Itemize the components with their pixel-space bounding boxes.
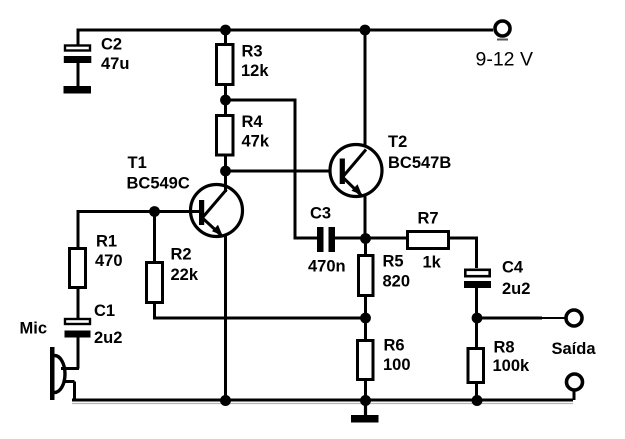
svg-text:100: 100 [383, 356, 411, 374]
label C3 [310, 205, 331, 223]
svg-text:BC549C: BC549C [127, 175, 190, 193]
svg-text:R4: R4 [242, 113, 264, 131]
wire R2 bottom to R5/R6 junction [155, 302, 366, 318]
label T2 [388, 133, 407, 151]
label R5 value 820 [383, 253, 411, 291]
label BC549C [127, 175, 190, 193]
wire R8 bottom lead [475, 383, 478, 401]
label R1 value 470 [95, 233, 123, 271]
wire R7 right to C4 top [449, 238, 477, 268]
wire lower output terminal stub [573, 390, 576, 400]
svg-text:R7: R7 [418, 210, 439, 228]
transistor T1 BC549C [191, 171, 243, 237]
wire output node to upper terminal [477, 317, 565, 320]
wire mic bottom terminal to ground rail [75, 382, 79, 401]
capacitor C3 [317, 227, 335, 252]
wire R5 bottom lead [364, 295, 367, 318]
svg-text:R1: R1 [96, 233, 117, 251]
wire C2 top lead [77, 30, 80, 45]
resistor R3 [217, 45, 234, 85]
svg-text:R3: R3 [242, 43, 263, 61]
label T1 [128, 154, 147, 172]
node junction C3 / T2 emitter / R5 / R7 [360, 233, 371, 244]
node junction C4 / R8 / output [472, 313, 483, 324]
label R4 value 47k [242, 113, 270, 151]
node junction on rail at T2 collector column [360, 25, 371, 36]
label C3 value 470n [308, 258, 346, 276]
terminal 9-12 V supply [495, 21, 510, 40]
wire R1 bottom to C1 [77, 287, 80, 318]
label 9-12 V [476, 49, 533, 71]
svg-text:Saída: Saída [552, 340, 597, 358]
wire feedback from R3/R4 junction to C3 [226, 100, 318, 238]
capacitor C2 [64, 46, 92, 94]
svg-text:R6: R6 [384, 337, 405, 355]
wire C4 bottom to output node [475, 288, 478, 319]
resistor R5 [359, 256, 374, 296]
wire T1 collector to T2 base [226, 170, 341, 173]
resistor R4 [217, 116, 234, 156]
wire junction to R7 [366, 237, 408, 240]
svg-text:47u: 47u [101, 55, 129, 73]
label Mic [20, 320, 48, 338]
node junction R6 / ground rail [360, 395, 371, 406]
resistor R8 [468, 349, 484, 383]
svg-text:C1: C1 [94, 302, 115, 320]
wire T2 emitter down to C3 node [364, 196, 367, 239]
label R6 value 100 [383, 337, 411, 375]
svg-text:C3: C3 [310, 205, 331, 223]
svg-text:470n: 470n [308, 258, 346, 276]
capacitor C1 [65, 319, 91, 338]
node junction on rail at R3 column [220, 25, 231, 36]
node junction R4 / T1 collector [220, 166, 231, 177]
svg-text:T2: T2 [388, 133, 407, 151]
wire T1 emitter down to ground rail [224, 236, 227, 400]
svg-text:22k: 22k [171, 266, 199, 284]
wire T1 base lead [78, 212, 199, 249]
svg-text:2u2: 2u2 [502, 280, 530, 298]
wire R5 top lead [364, 239, 367, 256]
microphone element [50, 347, 79, 400]
svg-text:100k: 100k [493, 357, 531, 375]
node junction R3/R4 [220, 95, 231, 106]
transistor T2 BC547B [330, 145, 382, 197]
ground symbol [351, 400, 379, 423]
svg-text:R2: R2 [171, 246, 192, 264]
label R2 value 22k [171, 246, 199, 285]
wire R3 bottom to R4 top [224, 86, 227, 114]
svg-text:470: 470 [95, 252, 123, 270]
svg-text:9-12 V: 9-12 V [476, 49, 533, 71]
label R7 value 1k [423, 254, 442, 272]
wire R2 top lead [153, 212, 156, 263]
svg-text:820: 820 [383, 273, 411, 291]
label C2 value 47u [101, 36, 129, 74]
svg-text:BC547B: BC547B [388, 154, 451, 172]
svg-text:2u2: 2u2 [94, 329, 122, 347]
svg-text:12k: 12k [241, 62, 269, 80]
label R3 value 12k [241, 43, 269, 81]
label C1 value 2u2 [94, 302, 122, 347]
resistor R1 [70, 249, 86, 288]
label BC547B [388, 154, 451, 172]
label Saida [552, 340, 597, 358]
wire R6 bottom lead [364, 380, 367, 401]
svg-text:Mic: Mic [20, 320, 48, 338]
wire T2 collector from rail [364, 30, 367, 152]
wire R4 bottom lead [224, 155, 227, 171]
label R7 [418, 210, 439, 228]
wire C1 bottom to mic [77, 338, 80, 369]
wire R8 top lead [475, 318, 478, 348]
label C4 value 2u2 [502, 259, 530, 299]
svg-text:C4: C4 [502, 259, 524, 277]
wire R3 top lead [224, 30, 227, 44]
wire ground rail [72, 400, 573, 404]
node junction R8 / ground rail [472, 395, 483, 406]
resistor R7 [408, 232, 449, 249]
terminal output upper [566, 310, 582, 326]
wire positive supply rail [77, 29, 494, 32]
node junction T1 emitter / ground rail [220, 395, 231, 406]
svg-text:R5: R5 [383, 253, 404, 271]
terminal output lower [567, 374, 583, 390]
label R8 value 100k [493, 339, 531, 376]
svg-text:T1: T1 [128, 154, 147, 172]
svg-text:R8: R8 [494, 339, 515, 357]
node junction R5 / R6 / R2 [360, 313, 371, 324]
node junction base / R2 [149, 206, 160, 217]
wire R6 top lead [364, 318, 367, 340]
svg-text:1k: 1k [423, 254, 442, 272]
wire C3 right plate to emitter junction [335, 237, 366, 240]
resistor R6 [358, 341, 374, 380]
svg-text:47k: 47k [242, 133, 270, 151]
resistor R2 [147, 263, 163, 303]
capacitor C4 [464, 270, 491, 288]
svg-text:C2: C2 [101, 36, 122, 54]
